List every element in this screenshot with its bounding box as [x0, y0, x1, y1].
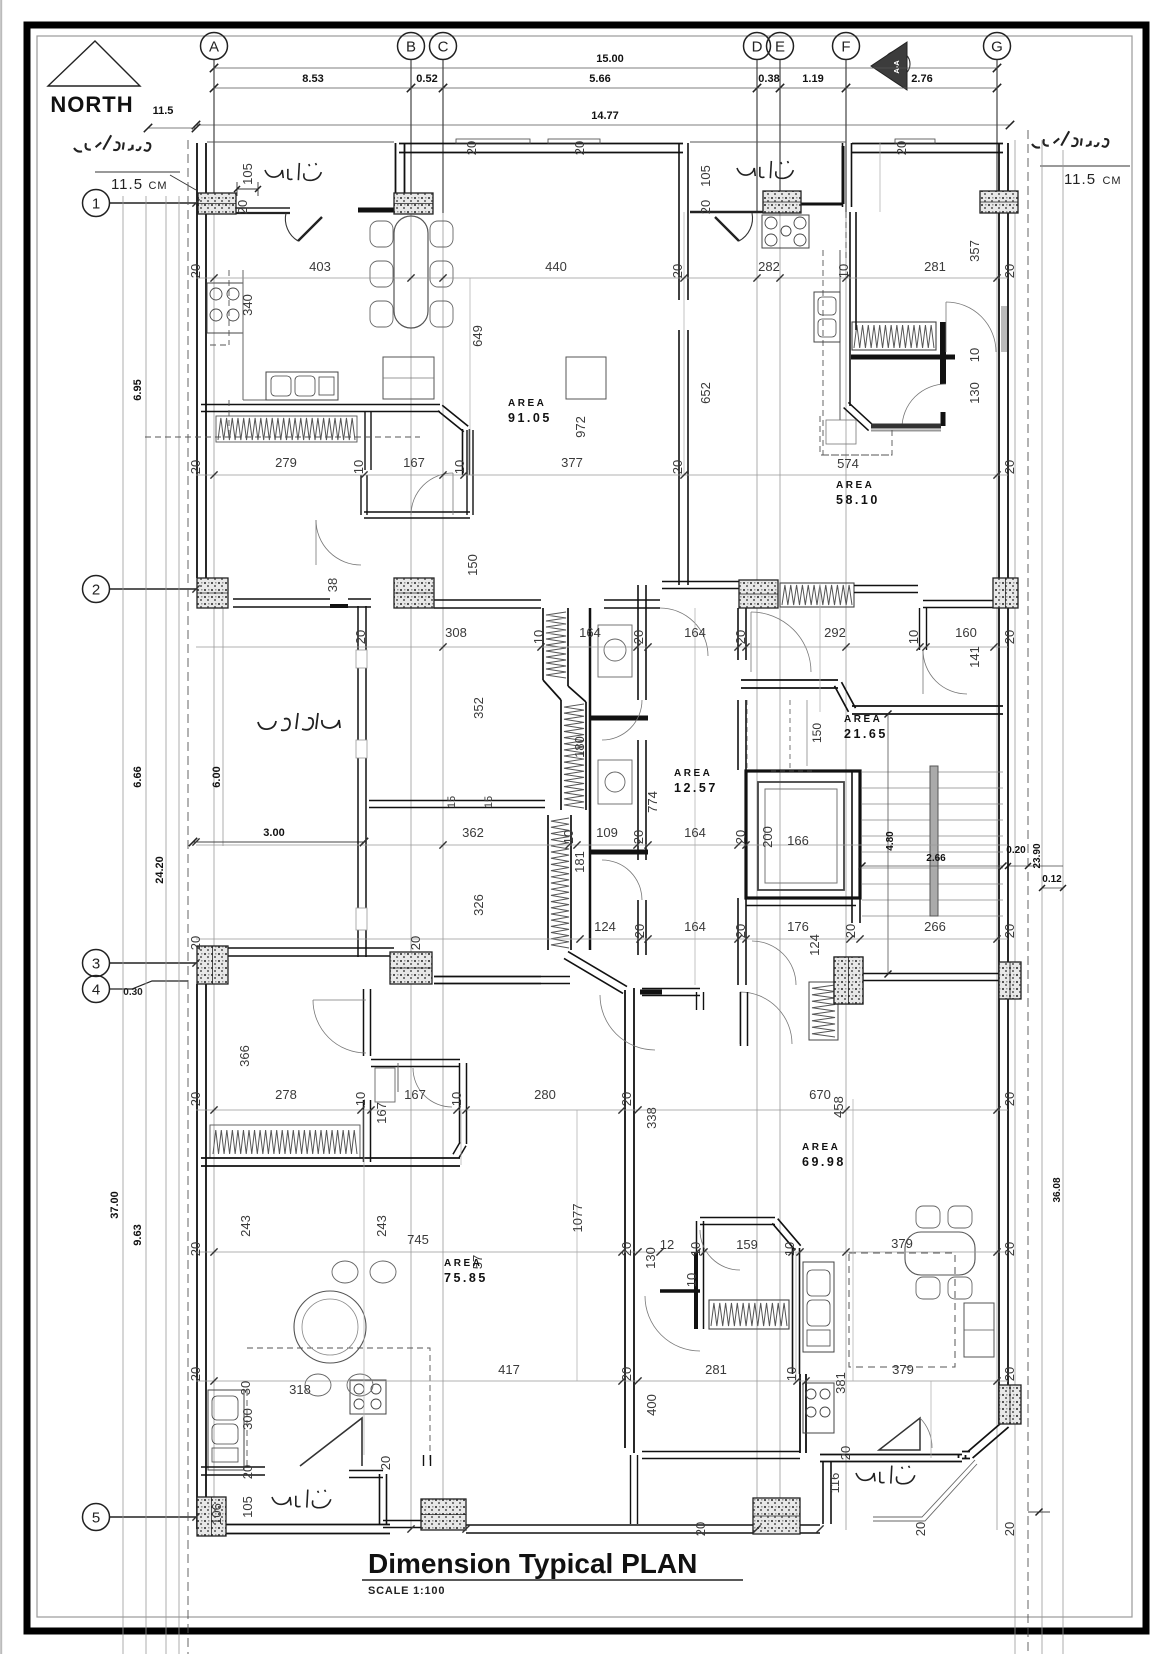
br door leaf terrace — [879, 1418, 920, 1450]
br chairs — [916, 1206, 940, 1228]
svg-text:106: 106 — [209, 1503, 224, 1525]
unit2 bath door arc 2 — [902, 384, 946, 428]
right extension 2 — [1041, 140, 1043, 1654]
bubble stem F — [845, 60, 847, 212]
grid line G — [996, 60, 998, 1530]
svg-text:23.90: 23.90 — [1032, 843, 1043, 868]
svg-text:10: 10 — [967, 348, 982, 362]
svg-text:116: 116 — [827, 1473, 842, 1494]
svg-text:105: 105 — [240, 163, 255, 185]
svg-text:0.52: 0.52 — [416, 73, 437, 85]
svg-text:292: 292 — [824, 625, 846, 640]
bath east wall — [645, 585, 647, 700]
bottom terrace wall left — [202, 1500, 391, 1529]
svg-text:2: 2 — [92, 582, 100, 599]
bath divider — [590, 716, 648, 721]
bath east wall 3 — [645, 900, 647, 955]
wardrobe east wall — [799, 1248, 801, 1374]
central joint wall east leaf — [633, 988, 635, 1453]
svg-text:774: 774 — [645, 791, 660, 813]
svg-text:20: 20 — [235, 200, 250, 214]
joint diag to lower block — [568, 952, 627, 987]
door leaf terrace unit1 — [298, 217, 322, 241]
terrace edge top-middle — [690, 141, 846, 143]
extension line v820 — [819, 583, 821, 712]
br table — [905, 1232, 975, 1275]
window sill bump 2 — [548, 139, 600, 144]
dim row line y939 — [196, 938, 1008, 940]
extension line v684 — [683, 212, 685, 475]
svg-text:3: 3 — [92, 956, 100, 973]
lightwell right wall — [365, 606, 367, 957]
br fridge — [964, 1303, 994, 1357]
svg-text:403: 403 — [309, 259, 331, 274]
bubble stem G — [996, 60, 998, 203]
svg-text:972: 972 — [573, 416, 588, 438]
svg-text:0.30: 0.30 — [123, 987, 143, 998]
pier B1 midline — [394, 203, 433, 205]
svg-text:20: 20 — [1002, 924, 1017, 938]
lightwell window 1 — [356, 650, 367, 668]
svg-text:417: 417 — [498, 1362, 520, 1377]
room under elevator — [746, 898, 856, 900]
svg-text:E: E — [775, 39, 785, 56]
dim line 11.5 — [148, 127, 196, 129]
svg-text:280: 280 — [534, 1087, 556, 1102]
row line 3 — [110, 962, 196, 964]
u1 chairs — [370, 221, 393, 247]
stair treads — [862, 771, 1003, 773]
extension line v853 — [852, 1099, 854, 1381]
bl terrace wall right — [349, 1471, 466, 1525]
room160 top wall — [923, 600, 997, 602]
svg-text:458: 458 — [831, 1096, 846, 1118]
svg-text:181: 181 — [572, 851, 587, 873]
svg-text:130: 130 — [643, 1247, 658, 1269]
pier A1 — [198, 193, 236, 214]
lightwell top wall — [233, 598, 330, 600]
pier G2 — [993, 578, 1018, 608]
bubble stem B — [410, 60, 412, 213]
dim row line y845 — [196, 844, 1008, 846]
u1 stove — [207, 283, 243, 333]
bubble stem A — [213, 60, 215, 203]
wardrobe zigzag — [709, 1300, 789, 1329]
pier A1 midline — [198, 203, 236, 205]
closet zigzag unit1 — [216, 416, 357, 442]
extension line v880 — [879, 142, 881, 212]
stair rail — [930, 766, 938, 916]
extension line 37.00 — [122, 196, 124, 1654]
svg-text:AREA: AREA — [836, 480, 874, 491]
svg-text:318: 318 — [289, 1382, 311, 1397]
svg-text:AREA: AREA — [674, 768, 712, 779]
svg-text:NORTH: NORTH — [50, 92, 133, 117]
svg-text:20: 20 — [1002, 630, 1017, 644]
grid line B — [410, 60, 412, 1530]
svg-text:6.00: 6.00 — [211, 766, 223, 787]
bath east wall 2 — [645, 740, 647, 860]
grid line E — [779, 60, 781, 1530]
extension line inner — [178, 196, 180, 1654]
room292 door wall — [926, 608, 928, 650]
svg-text:105: 105 — [240, 1496, 255, 1518]
wardrobe inner door arc — [700, 1230, 740, 1270]
svg-text:20: 20 — [188, 1092, 203, 1106]
svg-text:243: 243 — [238, 1215, 253, 1237]
svg-text:20: 20 — [464, 141, 479, 155]
wardrobe door arc — [645, 1296, 700, 1351]
svg-text:20: 20 — [670, 264, 685, 278]
svg-text:3.00: 3.00 — [263, 827, 284, 839]
svg-text:C: C — [438, 39, 449, 56]
svg-text:20: 20 — [619, 1242, 634, 1256]
foyer closet wall — [469, 470, 471, 475]
joint wall low east leaf — [570, 815, 572, 950]
joint wall mid east leaf — [585, 702, 587, 810]
joint zigzag upper — [546, 612, 566, 678]
bottom-right terrace edge — [873, 1460, 977, 1521]
bubble stem D — [756, 60, 758, 213]
unit divider wall top — [687, 143, 689, 300]
bl bath top wall — [371, 1059, 460, 1061]
row line 2 — [110, 588, 196, 590]
svg-text:SCALE 1:100: SCALE 1:100 — [368, 1585, 445, 1597]
terrace wall stub F — [800, 203, 843, 206]
svg-text:10: 10 — [351, 460, 366, 474]
pier G4 midline — [1009, 1385, 1011, 1424]
bl kitchen sink — [208, 1390, 244, 1470]
bl table — [294, 1291, 366, 1363]
hall dashed lines — [746, 700, 748, 768]
u1 dining table — [394, 216, 428, 328]
grid bubble C — [430, 33, 457, 60]
svg-text:1: 1 — [92, 196, 100, 213]
pier G2 midline — [1005, 578, 1007, 608]
joint zigzag low — [551, 818, 569, 948]
corridor east wall b — [745, 700, 747, 770]
elevator cab — [758, 782, 844, 890]
title underline — [362, 1579, 743, 1581]
pier B2 midline — [394, 592, 434, 594]
pier D5 — [753, 1498, 800, 1534]
extension line 6.00 — [222, 608, 224, 846]
wardrobe west wall — [703, 1221, 705, 1329]
grid line A — [213, 60, 215, 1530]
grid bubble D — [744, 33, 771, 60]
lightwell label — [258, 713, 340, 730]
unit2 kitchen counter dashed — [823, 212, 892, 455]
bl bath inner — [397, 1063, 399, 1092]
pier G1 — [980, 191, 1018, 213]
svg-text:Dimension Typical PLAN: Dimension Typical PLAN — [368, 1548, 697, 1579]
terrace wall stub B — [358, 208, 395, 213]
br kitchen stove — [803, 1383, 834, 1433]
svg-text:6.66: 6.66 — [132, 766, 144, 787]
svg-text:150: 150 — [465, 554, 480, 576]
grid line F — [845, 60, 847, 1530]
svg-text:38: 38 — [325, 578, 340, 592]
joint wall upper west leaf — [542, 608, 544, 680]
svg-text:20: 20 — [188, 460, 203, 474]
svg-text:20: 20 — [913, 1522, 928, 1536]
pier B3 midline — [390, 967, 432, 969]
svg-text:11.5: 11.5 — [1064, 171, 1096, 188]
unit2 bath door jamb — [941, 412, 946, 426]
joint leader left — [170, 175, 196, 190]
joint zigzag mid — [564, 704, 584, 808]
grid bubble A — [201, 33, 228, 60]
svg-text:167: 167 — [404, 1087, 426, 1102]
svg-text:164: 164 — [684, 625, 706, 640]
br terrace west wall — [830, 1462, 832, 1524]
left exterior wall lower — [205, 984, 207, 1500]
grid bubble E — [767, 33, 794, 60]
pier A2 midline — [197, 592, 228, 594]
svg-text:0.20: 0.20 — [1006, 845, 1026, 856]
u1 island — [383, 357, 434, 399]
pier D1 midline — [763, 201, 801, 203]
svg-text:20: 20 — [619, 1367, 634, 1381]
svg-text:150: 150 — [810, 723, 824, 743]
closet room unit1 — [370, 412, 372, 470]
svg-text:10: 10 — [906, 630, 921, 644]
svg-text:20: 20 — [188, 936, 203, 950]
pier D5 midline — [753, 1515, 800, 1517]
pier G3 midline — [1009, 962, 1011, 999]
door arc room160 — [923, 650, 967, 694]
mid hatch pier — [834, 957, 863, 1004]
hall dim 150 — [806, 700, 808, 766]
svg-text:20: 20 — [894, 141, 909, 155]
svg-text:20: 20 — [698, 200, 713, 214]
row bubble 5 — [83, 1504, 110, 1531]
svg-text:15: 15 — [446, 796, 458, 808]
svg-text:69.98: 69.98 — [802, 1155, 846, 1169]
pier G1 midline — [980, 201, 1018, 203]
svg-text:20: 20 — [1002, 1367, 1017, 1381]
svg-text:400: 400 — [644, 1394, 659, 1416]
kitchen wall unit1 — [201, 405, 470, 471]
unit2 bath wall vertical — [940, 322, 946, 384]
hall door arc unit1 — [316, 520, 361, 565]
expansion joint underline left — [95, 171, 180, 173]
unit3 kitchen wall — [849, 212, 851, 406]
svg-text:20: 20 — [1002, 264, 1017, 278]
svg-text:A-A: A-A — [892, 60, 901, 74]
joint wall upper east leaf — [567, 608, 569, 686]
terrace label bottom-left — [272, 1490, 331, 1508]
pier row2 west wall — [662, 581, 739, 583]
svg-text:CM: CM — [1102, 175, 1121, 187]
bl closet top line — [210, 1124, 360, 1126]
svg-text:20: 20 — [693, 1522, 708, 1536]
pier D2 midline — [739, 593, 778, 595]
svg-text:377: 377 — [561, 455, 583, 470]
bath door arc 1 — [602, 700, 642, 740]
extension line v695 — [694, 608, 696, 985]
mid unit top walls — [642, 988, 700, 990]
svg-text:20: 20 — [631, 830, 646, 844]
terrace edge top-left — [207, 141, 394, 143]
terrace right wall top-middle — [851, 143, 853, 207]
pier B1 — [394, 193, 433, 214]
elevator shaft — [746, 771, 860, 898]
expansion joint label left — [74, 135, 150, 151]
bath fixture bottom — [598, 760, 632, 804]
lightwell bottom wall — [228, 947, 394, 949]
pier G3 — [999, 962, 1021, 999]
svg-text:308: 308 — [445, 625, 467, 640]
stair bottom wall — [860, 973, 1003, 975]
bottom wall right unit — [820, 1455, 970, 1462]
elevator door dashed — [771, 770, 816, 772]
svg-text:37.00: 37.00 — [109, 1191, 121, 1219]
bl bedroom east wall low — [370, 1100, 372, 1162]
svg-text:164: 164 — [579, 625, 601, 640]
dim row line y278 — [196, 277, 1008, 279]
svg-text:167: 167 — [374, 1102, 389, 1124]
section marker triangle — [871, 42, 907, 90]
svg-text:10: 10 — [784, 1367, 799, 1381]
bl kitchen counter dashed — [247, 1348, 430, 1466]
svg-text:6.95: 6.95 — [132, 379, 144, 400]
svg-text:21.65: 21.65 — [844, 727, 888, 741]
bl terrace wall — [201, 1466, 265, 1468]
right exterior wall — [1007, 143, 1009, 1424]
svg-text:20: 20 — [188, 264, 203, 278]
bath divider 2 — [590, 850, 648, 855]
svg-text:124: 124 — [594, 919, 616, 934]
svg-text:B: B — [406, 39, 416, 56]
svg-text:278: 278 — [275, 1087, 297, 1102]
terrace label bottom-right — [856, 1466, 915, 1484]
svg-text:10: 10 — [452, 460, 467, 474]
svg-text:11.5: 11.5 — [153, 105, 174, 117]
svg-text:10: 10 — [449, 1092, 464, 1106]
bl bedroom door arc — [313, 1000, 366, 1053]
mid bottom wall west — [637, 1455, 639, 1524]
u1 sink — [266, 372, 338, 400]
grid line D — [756, 60, 758, 1530]
expansion joint label right — [1032, 131, 1108, 147]
dim row line y1110 — [196, 1109, 1008, 1111]
svg-text:11.5: 11.5 — [111, 176, 143, 193]
dimension ticks — [210, 274, 217, 281]
u1 fridge — [566, 357, 606, 399]
svg-text:4.80: 4.80 — [885, 831, 896, 851]
row bubble 4 — [83, 976, 110, 1003]
svg-text:0.38: 0.38 — [758, 73, 779, 85]
svg-text:281: 281 — [924, 259, 946, 274]
svg-text:338: 338 — [644, 1107, 659, 1129]
svg-text:160: 160 — [955, 625, 977, 640]
pier F3 — [834, 957, 863, 1004]
svg-text:75.85: 75.85 — [444, 1271, 488, 1285]
svg-text:20: 20 — [733, 630, 748, 644]
svg-text:2.76: 2.76 — [911, 73, 932, 85]
room under elevator door arc — [752, 941, 796, 985]
dim row line y647 — [196, 646, 1008, 648]
top exterior wall unit3 — [852, 143, 1003, 145]
door arc foyer — [411, 473, 453, 515]
unit divider wall top b — [687, 330, 689, 585]
svg-text:D: D — [752, 39, 763, 56]
svg-text:167: 167 — [403, 455, 425, 470]
svg-text:10: 10 — [561, 830, 576, 844]
dim row line y1381 — [196, 1380, 1008, 1382]
pier B3 — [390, 952, 432, 984]
row line 4 — [110, 981, 188, 989]
svg-text:AREA: AREA — [444, 1258, 482, 1269]
bl closet zigzag — [210, 1125, 360, 1158]
terrace parapet unit2 — [690, 211, 763, 214]
room divider 352/326 — [369, 800, 545, 802]
svg-text:440: 440 — [545, 259, 567, 274]
dim line row2 — [214, 87, 997, 89]
svg-text:141: 141 — [967, 646, 982, 668]
svg-text:670: 670 — [809, 1087, 831, 1102]
svg-text:20: 20 — [188, 1367, 203, 1381]
svg-text:1077: 1077 — [570, 1204, 585, 1233]
svg-text:15: 15 — [483, 796, 495, 808]
bl bedroom east wall — [370, 989, 372, 1056]
svg-text:0.12: 0.12 — [1042, 874, 1062, 885]
pier A3 midline — [212, 946, 214, 984]
door leaf terrace unit2 — [715, 217, 739, 241]
svg-text:745: 745 — [407, 1232, 429, 1247]
svg-text:20: 20 — [572, 141, 587, 155]
pier G4 — [999, 1385, 1021, 1424]
svg-text:9.63: 9.63 — [132, 1224, 144, 1245]
svg-text:300: 300 — [240, 1408, 255, 1430]
bl chairs — [332, 1261, 358, 1283]
bott row3 wall — [434, 976, 541, 978]
unit2 counter edge — [839, 250, 841, 420]
expansion joint dashed line left — [187, 140, 189, 1654]
terrace right wall top-left — [404, 143, 406, 209]
unit2 bath bottom wall — [871, 424, 941, 429]
svg-text:10: 10 — [353, 1092, 368, 1106]
extension line v931 — [930, 1381, 932, 1458]
pier B5 midline — [421, 1514, 466, 1516]
grid bubble F — [833, 33, 860, 60]
svg-text:20: 20 — [408, 936, 423, 950]
svg-text:180: 180 — [572, 736, 587, 758]
row line 5 — [110, 1516, 196, 1518]
bubble stem C — [442, 60, 444, 213]
svg-text:20: 20 — [1002, 460, 1017, 474]
mid bottom top wall — [642, 1451, 800, 1453]
svg-text:20: 20 — [670, 460, 685, 474]
svg-text:24.20: 24.20 — [154, 856, 166, 884]
svg-text:326: 326 — [471, 894, 486, 916]
bath fixture top — [598, 625, 632, 677]
right dim tick 36.08 — [1028, 1511, 1050, 1513]
svg-text:366: 366 — [237, 1045, 252, 1067]
dim line 3.00 — [193, 841, 364, 843]
terrace parapet unit1 — [236, 207, 290, 209]
svg-text:281: 281 — [705, 1362, 727, 1377]
svg-text:166: 166 — [787, 833, 809, 848]
bl terrace door leaf — [300, 1418, 362, 1466]
pier A3 — [197, 946, 228, 984]
right extension 1 — [1014, 140, 1016, 1654]
terrace label top-middle — [737, 161, 793, 178]
pier D1 — [763, 191, 801, 213]
extension line 9.63 — [145, 196, 147, 1654]
unit2 vanity dashed — [820, 416, 892, 455]
